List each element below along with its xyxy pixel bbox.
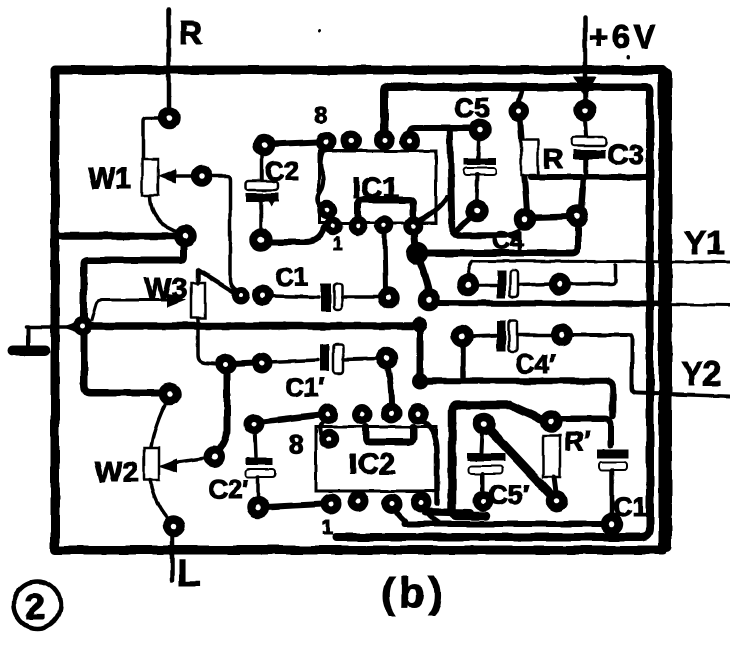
svg-text:C5′: C5′ [488,480,529,510]
capacitor C5' top plate [467,453,505,461]
wire pad up to R-C3 rail [581,180,583,208]
node pad A2 [256,357,269,370]
svg-text:2: 2 [25,586,45,627]
wire pad A2 to capacitor C1' [269,360,318,362]
node R' top pad [544,414,558,428]
node C1 left pad [257,289,270,302]
wire horizontal R-C3 rail to right rail [531,174,646,180]
wire IC2 pin8 stub to bottom trace [424,508,438,522]
wire C2 bottom stem [259,202,263,231]
wire mid line outside border [660,304,730,305]
wire C2 top stem [260,153,264,181]
arrow W2 wiper [158,459,177,473]
svg-text:(b): (b) [381,569,447,616]
node C4 right pad [553,277,567,291]
wire IC2 left edge trace [320,421,324,436]
svg-text:R′: R′ [564,426,590,456]
wire C2' bottom stem [256,477,260,498]
node center junction (filled) [412,317,428,333]
wire C3 bottom stem [584,159,589,176]
wire lower blob right [426,378,606,385]
potentiometer W3 [191,283,205,318]
wire W1-bottom pad down-left to ground junction [84,244,184,318]
wire +6V input [583,18,588,100]
capacitor C1 right plate [334,283,342,310]
board right border extra thickness [662,73,672,547]
svg-text:C2′: C2′ [209,474,248,504]
wire +6V pad to C3 [585,119,586,136]
wire C5 bottom stem [477,175,478,203]
wire jumper diagonal C5' pad to R' bottom pad [490,430,551,495]
node W2 top pad [163,387,177,401]
wire W2 wiper pad up to node pad row [219,372,227,450]
wire ground junction down to W2 top pad [84,334,162,393]
resistor R' [543,435,560,477]
wire R' top pad to C1'' top [559,419,611,445]
svg-text:C2: C2 [265,156,300,186]
node curve pad [410,246,424,260]
wire C5' top stem [481,432,482,452]
wire R pad to W1 top [143,118,160,159]
wire curve pad to IC1 pin8 region and down to pad [414,234,429,292]
capacitor C1'' bottom plate [599,462,627,470]
wire curve pad right to R bottom pad [425,228,578,253]
wire C2' top stem [255,432,256,457]
capacitor C4' left plate [497,321,506,351]
node L pad [167,519,181,533]
svg-text:C3: C3 [608,139,644,170]
wire jumper diagonal through R [520,118,527,211]
capacitor C1' right plate [333,344,343,373]
capacitor C4' right plate [509,321,517,352]
IC2 top pin pad 2 [356,408,369,421]
IC2 top pin pad 3 [385,407,398,420]
node C4 left pad [461,278,475,292]
board outline border [55,70,663,550]
IC2 body [316,427,436,491]
capacitor C5 top plate [464,158,496,165]
IC1 body [319,151,436,223]
wire IC1 pin8 diagonal up [419,197,448,221]
svg-text:C5: C5 [454,92,490,123]
IC2 top pin pad 4 [412,408,425,421]
IC2 notch tongue [366,427,413,442]
wire pad A1 to pad A2 [232,363,256,364]
wire W1 bottom to pad [150,195,180,233]
svg-text:1: 1 [322,517,333,539]
wire C4' to right pad [518,333,554,337]
wire C4 right pad up to Y1 line [568,265,615,284]
wire IC2 pin7 to bottom trace [395,510,405,521]
wire center junction down [417,330,424,378]
ground symbol [26,329,30,347]
node C2' top pad [248,418,261,431]
wire lower trace curve down to C1'' top [606,381,613,416]
IC1 bottom pin pad 5 [327,220,339,232]
IC2 bottom pin pad 7 [386,498,399,511]
capacitor C2 top plate [246,181,278,190]
capacitor C2 top node [257,138,271,152]
capacitor C2' top plate [246,458,273,465]
IC1 pin pad 1 [320,136,333,149]
svg-text:8: 8 [314,102,327,129]
node C2' bottom pad [251,500,265,514]
node +6V pad [578,103,592,117]
arrow ground wire [62,321,79,333]
wire C4 left pad to C4 [476,283,496,287]
svg-text:L: L [177,553,200,595]
node C4' right pad [555,328,569,342]
node R pad [162,111,176,125]
IC2 bottom pin pad 6 [352,495,365,508]
svg-text:R: R [179,15,202,51]
wire W2 bottom to L pad [150,480,169,519]
wire C4 to right pad [519,284,552,285]
wire C4' right pad to Y2 [570,335,730,396]
capacitor C3 bottom plate [573,150,606,159]
wire C2 bottom pad to IC1 pin1 lower pad [269,219,328,242]
speck top [626,55,630,59]
IC1 bottom pin pad 7 [378,219,390,231]
wire C5' bottom stem [481,474,485,493]
svg-text:8: 8 [289,429,303,459]
node C4' left pad [455,329,469,343]
capacitor C1 left plate [321,283,331,312]
capacitor C4 left plate [497,270,506,298]
svg-text:IC1: IC1 [352,172,399,205]
node ground junction pad [77,320,89,332]
IC1 side pad [321,204,333,216]
wire staple foot to IC2 pin8 [426,512,470,513]
svg-text:W2: W2 [95,457,139,489]
capacitor C4 right plate [510,270,518,297]
svg-text:IC2: IC2 [349,448,396,481]
svg-text:C4′: C4′ [515,349,556,379]
IC2 bottom pin pad 5 [325,498,338,511]
node C2 bottom pad [254,233,269,248]
wire bottom trace to C1'' pad [404,521,604,527]
node R' bottom pad [550,494,564,508]
node pad right of R [570,209,584,223]
potentiometer W1 [142,159,158,195]
node pad below W1 [178,229,192,243]
capacitor C3 top plate [571,137,607,146]
wire IC2 pin4 curve down [420,420,437,503]
wire jumper top pad to rail [518,90,522,104]
wire IC1 pin4 to C5 top pad [410,128,479,134]
node pad A1 [220,358,233,371]
capacitor C1' left plate [320,344,329,371]
wire C1' pad down to IC2 pin [388,366,392,405]
node W1 wiper pad [195,169,209,183]
wire left border to W1-bottom pad [55,232,176,240]
svg-text:Y1: Y1 [684,224,724,261]
wire C5 top stem [478,138,479,158]
wire L output [170,533,175,581]
capacitor C5' bottom plate [469,466,503,474]
wire C2 top pad to IC1 pin1 [272,142,318,144]
wire C1'' bottom stem [610,470,615,516]
arrow W1 wiper [157,169,176,184]
wire C4' left pad to C4' [470,335,496,336]
IC1 bottom pin pad 8 [407,220,419,232]
figure number circle 2 [14,582,61,629]
arrow at arm end [503,228,521,243]
svg-text:W1: W1 [88,163,132,195]
wire C1 left pad to C1 [270,296,319,297]
wire W2 top pad to W2 [151,401,167,447]
wire W3 bottom through bus to pad A1 [198,318,218,364]
wire ground junction to center junction [90,322,416,330]
node center junction lower blob [412,373,428,389]
wire W1 wiper pad to C1 left node [209,176,242,294]
wire Y1 line [472,261,730,262]
node W2 wiper pad [207,450,221,464]
wire vertical branch to lower arm [450,128,506,235]
wire R pad to right pad [533,217,569,218]
node C1' right pad [380,351,394,365]
svg-text:1: 1 [333,234,343,254]
IC1 notch tongue [358,200,413,223]
arrow W3 wiper [167,293,186,308]
wire C2' top pad to IC2 pin1 [262,415,320,422]
IC1 pin pad 4 [404,135,417,148]
wire C1 right pad up to IC1 pin 6 [385,232,386,290]
svg-text:Y2: Y2 [681,355,721,392]
capacitor C1'' top plate [597,449,629,458]
wire R input vertical [167,10,172,108]
IC1 bottom pin pad 6 [352,220,364,232]
node C1 right pad [382,291,396,305]
wire C1 to right pad [342,295,380,299]
IC2 bottom pin pad 8 [415,496,428,509]
wire staple trace around C5' [452,405,541,516]
node R bottom pad [518,212,532,226]
IC2 top pin pad 1 [322,408,335,421]
arrow +6V junction at rail [573,77,597,98]
capacitor C5 bottom plate [464,168,496,175]
svg-text:+6V: +6V [589,18,659,55]
capacitor C2 bottom plate [246,193,279,202]
svg-text:C1: C1 [275,262,308,292]
wire R' bottom link [554,477,556,492]
node C5' bottom pad [477,495,490,508]
wire C2' bottom pad to IC2 pin5 [266,504,323,507]
wire IC1 left edge trace [318,149,324,207]
IC1 pin pad 2 [345,135,358,148]
wire W3 top diagonal to C1 left node [198,270,236,294]
node thick line pad [422,293,436,307]
capacitor C2' bottom plate [246,469,276,477]
wire top rail from IC1 pin3 around right side and bottom [336,87,650,537]
wire Y1 left end curve [468,261,472,277]
svg-text:R: R [543,143,563,174]
node C1 left small pad [236,291,247,302]
wire C1' to pad [343,358,379,359]
wire C4' left pad down to lower trace [460,344,466,377]
node jumper top pad [513,105,526,118]
wire C5 bottom pad to arm corner [457,218,470,230]
IC1 pin pad 3 [378,134,391,147]
potentiometer W2 [144,448,159,480]
ground input wire [26,325,68,329]
resistor R [521,140,538,175]
wire thick mid line to right edge [437,303,660,304]
IC2 side pad [323,433,335,445]
svg-text:C1′: C1′ [285,372,324,402]
node C5' top pad [477,417,491,431]
node C5 bottom pad [470,204,484,218]
node C5 top pad [473,123,487,137]
wire W3 wiper line [92,300,170,320]
node C1'' bottom pad [605,517,619,531]
